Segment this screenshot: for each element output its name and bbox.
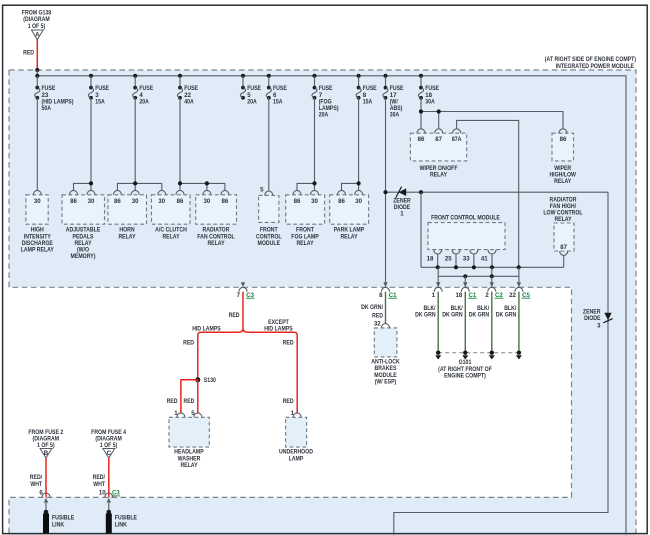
module FRONT CONTROL MODULE (pin 5) [256,191,282,247]
svg-text:RELAY: RELAY [554,216,571,223]
svg-text:LINK: LINK [115,521,128,528]
node zener1 / ground-bus drop [419,190,423,194]
wire fuse17 trunk down to connector 8 C1 [385,98,387,287]
connector triangle C [103,449,115,459]
svg-text:1 OF 5): 1 OF 5) [28,23,46,30]
svg-text:(AT RIGHT SIDE OF ENGINE COMPT: (AT RIGHT SIDE OF ENGINE COMPT) [545,56,636,63]
module FRONT CONTROL MODULE (pins 18 25 33 41) [427,214,505,262]
svg-text:86: 86 [114,198,121,205]
relay HORN RELAY [108,190,147,240]
bus junction node x=314.5 [312,74,316,78]
svg-text:87: 87 [435,136,442,143]
svg-text:30: 30 [158,198,165,205]
svg-text:41: 41 [481,255,488,262]
wire BLK/DK GRN to G101 #3 [469,292,492,351]
svg-text:C: C [107,450,112,457]
ground bus node x=456 [454,265,458,269]
connector pin 22 C5 at IPM boundary [509,282,530,299]
bus junction node x=135.2 [133,74,137,78]
splice node at IPM boundary [35,68,39,72]
ground symbol at x=491.8 [489,351,495,360]
branch label EXCEPT HID LAMPS [264,319,293,333]
ground bus node x=518.7 [517,265,521,269]
svg-text:DK GRN/: DK GRN/ [361,304,383,311]
svg-text:20A: 20A [247,98,257,105]
svg-text:RED: RED [372,312,383,319]
ground bus node x=492 [490,265,494,269]
wire RED S130 to headlamp washer relay pin 5 [184,380,198,414]
svg-text:RELAY: RELAY [118,233,135,240]
bus junction node x=180 [178,74,182,78]
wire RED/WHT from triangle B [30,458,46,497]
svg-text:B: B [44,450,49,457]
ground bus wire [421,266,564,268]
wire RED S130 to headlamp washer relay pin 1 [167,380,198,414]
svg-text:RED: RED [183,339,194,346]
bus junction node x=243 [241,74,245,78]
svg-text:LINK: LINK [52,521,65,528]
bus junction node x=91 [89,74,93,78]
svg-text:RELAY: RELAY [296,240,313,247]
wire segment into bus [36,70,38,76]
feed label FROM G138 [22,10,52,30]
svg-text:18: 18 [427,255,434,262]
relay WIPER HIGH/LOW RELAY [549,129,576,185]
svg-text:86: 86 [70,198,77,205]
svg-text:1 OF 5): 1 OF 5) [100,442,118,449]
svg-text:DK GRN: DK GRN [469,312,490,319]
relay RADIATOR FAN HIGH/LOW CONTROL RELAY [543,196,582,255]
feed label FROM FUSE 2 [28,429,63,449]
connector pin 7 C3 at IPM boundary (HID feed) [237,282,255,299]
svg-text:DK GRN: DK GRN [496,312,517,319]
svg-text:RELAY: RELAY [340,233,357,240]
svg-text:A: A [35,31,40,38]
svg-text:RED: RED [167,398,178,405]
wire RED from triangle A [23,40,37,71]
svg-text:30: 30 [355,198,362,205]
svg-text:86: 86 [222,198,229,205]
svg-text:87A: 87A [452,136,462,143]
relay HIGH INTENSITY DISCHARGE LAMP RELAY [21,190,54,253]
connector triangle A [31,30,43,40]
svg-text:30: 30 [204,198,211,205]
lamp UNDERHOOD LAMP [279,410,314,462]
fusible link right [106,503,137,534]
wire fuse3 to adjustable pedals relay [74,98,94,191]
fuse 18 30A [418,76,439,106]
ground bus node x=473.9 [472,265,476,269]
fuse 23 (HID LAMPS) 50A [35,76,74,112]
wire fuse23 to HID relay pin 30 [36,98,38,191]
svg-text:RELAY: RELAY [554,178,571,185]
wire RED right branch to underhood lamp [283,336,298,414]
relay ADJUSTABLE PEDALS RELAY (W/O MEMORY) [62,190,105,259]
zener diode 1 [393,187,411,218]
wire fuse22 to A/C clutch pin 86 and radiator fan relay [178,98,225,191]
ground symbol at x=438.2 [435,351,441,360]
svg-text:30A: 30A [425,98,435,105]
connector pin 18 C1 at IPM boundary [456,282,477,299]
feed label FROM FUSE 4 [91,429,126,449]
svg-text:RED: RED [23,49,34,56]
fuse 7 (FOG LAMPS) 20A [312,76,339,119]
svg-text:20A: 20A [319,111,329,118]
svg-text:RELAY: RELAY [207,240,224,247]
svg-text:DK GRN: DK GRN [442,312,463,319]
svg-text:30A: 30A [390,111,400,118]
svg-text:40A: 40A [184,98,194,105]
bus junction node x=358.6 [357,74,361,78]
svg-text:HID LAMPS: HID LAMPS [192,325,221,332]
svg-text:RELAY: RELAY [180,462,197,469]
connector pin 6 at IPM boundary [39,490,50,503]
svg-text:(W/ ESP): (W/ ESP) [375,378,397,385]
splice S130 [195,377,216,384]
svg-text:2: 2 [485,292,489,299]
wire RED from connector 7 C3 down to split [229,292,243,329]
ground symbol at x=518.9 [516,351,522,360]
svg-text:INTEGRATED POWER MODULE: INTEGRATED POWER MODULE [556,63,634,70]
node trunk/zener [383,190,387,194]
svg-text:RED: RED [184,398,195,405]
svg-text:50A: 50A [42,105,52,112]
svg-text:86: 86 [177,198,184,205]
svg-text:RED: RED [283,398,294,405]
connector triangle B [40,449,52,459]
wire split brace (HID LAMPS / EXCEPT HID LAMPS) [198,328,297,337]
svg-text:DK GRN: DK GRN [415,312,436,319]
fuse 5 20A [240,76,261,106]
svg-text:MEMORY): MEMORY) [71,253,96,260]
wires drops to IPM connector row [438,276,519,287]
svg-text:LAMP RELAY: LAMP RELAY [21,246,54,253]
svg-text:86: 86 [560,136,567,143]
power bus wire [37,76,626,535]
svg-text:22: 22 [509,292,516,299]
svg-text:86: 86 [294,198,301,205]
svg-text:30: 30 [132,198,139,205]
relay A/C CLUTCH RELAY [152,190,191,240]
svg-text:32: 32 [374,321,381,328]
relay PARK LAMP RELAY [330,190,369,240]
fuse 4 20A [133,76,154,106]
fusible link left [43,503,74,534]
svg-text:LAMP: LAMP [289,455,304,462]
ground bus node x=437.7 [436,265,440,269]
svg-text:30: 30 [34,198,41,205]
svg-text:FRONT CONTROL MODULE: FRONT CONTROL MODULE [431,214,500,221]
svg-text:15A: 15A [273,98,283,105]
wire fuse7 to front fog lamp relay [297,98,317,191]
relay RADIATOR FAN CONTROL RELAY [196,190,237,246]
svg-text:87: 87 [560,244,567,251]
relay HEADLAMP WASHER RELAY [169,410,209,469]
svg-text:20A: 20A [139,98,149,105]
relay WIPER ON/OFF RELAY [410,129,466,179]
wire relay 87 to ground bus [563,255,565,267]
fuse 8 15A [356,76,377,106]
fuse 22 40A [177,76,198,106]
svg-text:1 OF 5): 1 OF 5) [37,442,55,449]
svg-text:ENGINE COMPT): ENGINE COMPT) [444,372,486,379]
wires FCM pins to ground bus [438,254,492,267]
fuse 17 (W/ ABS) 30A [383,76,404,119]
wire fuse4 to horn relay and A/C clutch pin 30 [117,98,161,191]
wire fuse6 to front control module pin 5 [260,98,269,194]
svg-text:15A: 15A [95,98,105,105]
wire BLK/DK GRN to G101 #1 [415,292,438,351]
wire zener diode 3 branch [394,192,608,535]
svg-text:WHT: WHT [30,481,42,488]
svg-text:DIODE: DIODE [584,315,600,322]
svg-text:RED: RED [229,312,240,319]
wire fuse8 to park lamp relay [342,98,361,191]
svg-text:30: 30 [311,198,318,205]
bus junction node x=37.3 [35,74,39,78]
svg-text:HID LAMPS: HID LAMPS [264,326,293,333]
svg-text:RELAY: RELAY [430,172,447,179]
wire from fuse17 trunk to zener diode 1 and across to zener diode 3 drop [386,191,609,193]
svg-text:RED: RED [283,339,294,346]
connector pin 2 C2 at IPM boundary [485,282,503,299]
svg-text:15A: 15A [363,98,373,105]
svg-text:86: 86 [418,136,425,143]
svg-text:S130: S130 [204,377,217,384]
wire drop to module ground bus [420,192,422,267]
svg-text:25: 25 [445,255,452,262]
connector pin 8 C1 at IPM boundary (ABS feed) [379,282,397,299]
wire RED left branch to splice S130 [183,336,198,380]
bus junction node x=268.8 [267,74,271,78]
relay FRONT FOG LAMP RELAY [286,190,325,246]
ground symbol at x=465.3 [462,351,468,360]
wire wiper on/off relay pin 87A to ground bus [457,120,519,267]
ground splice dashed link [438,352,519,354]
svg-text:MODULE: MODULE [258,240,281,247]
svg-text:18: 18 [456,292,463,299]
bus junction node x=385.5 [383,74,387,78]
svg-text:86: 86 [338,198,345,205]
svg-text:30: 30 [88,198,95,205]
ground distribution bus wire [438,267,519,278]
wire fuse18 to wiper on/off relay and wiper high/low relay [419,98,563,129]
wire RED/WHT from triangle C [93,458,109,497]
svg-text:WHT: WHT [93,481,105,488]
integrated power module label [545,56,636,70]
svg-text:33: 33 [463,255,470,262]
connector pin 1 at IPM boundary [432,282,442,299]
wire DK GRN/RED to anti-lock brakes module [361,292,385,325]
fuse 3 15A [88,76,109,106]
connector pin 10 C3 at IPM boundary [99,490,121,503]
module ANTI-LOCK BRAKES MODULE (W/ ESP) [371,321,400,386]
wire BLK/DK GRN to G101 #2 [442,292,465,351]
svg-text:RELAY: RELAY [162,233,179,240]
bus junction node x=421 [419,74,423,78]
zener diode 3 [583,309,613,330]
wire BLK/DK GRN to G101 #4 [496,292,519,351]
fuse 6 15A [266,76,287,106]
ground label G101 [438,359,492,379]
